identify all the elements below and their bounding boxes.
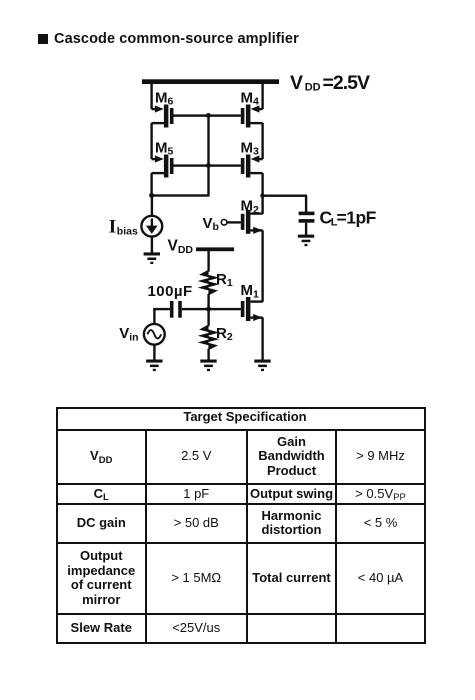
svg-text:VDD: VDD (168, 238, 194, 257)
wire M4 drain to M3 source (261, 123, 263, 159)
wire M6 drain to M5 source (150, 123, 152, 159)
svg-text:V: V (290, 72, 303, 94)
svg-text:=2.5V: =2.5V (323, 72, 370, 94)
source Vin (144, 324, 165, 345)
svg-text:=1pF: =1pF (337, 208, 377, 228)
capacitor 100uF (170, 301, 182, 318)
wire VDD rail to M4 source (261, 81, 263, 109)
wire M6 gate to M4 gate (174, 114, 241, 116)
wire R1 to input node (207, 294, 209, 310)
ground below CL (298, 235, 314, 247)
junction dot gates bottom pair (206, 163, 211, 168)
specification table (56, 407, 426, 644)
terminal Vb (221, 220, 227, 226)
ground below Vin (146, 360, 162, 372)
junction dot output node (260, 193, 264, 197)
wire M2 source to M1 drain (261, 230, 263, 301)
capacitor CL (299, 212, 315, 235)
transistor M5 (PMOS) (152, 155, 174, 178)
title bullet square (38, 34, 48, 44)
svg-text:DD: DD (305, 82, 321, 94)
svg-text:R2: R2 (216, 325, 233, 343)
wire output node to CL (263, 195, 308, 197)
wire Ibias to ground (151, 237, 153, 254)
VDD supply rail (142, 79, 279, 84)
svg-text:bias: bias (117, 226, 138, 238)
svg-text:M4: M4 (241, 89, 260, 107)
junction dot gates top pair (206, 113, 211, 118)
wire R2 to ground (207, 349, 209, 360)
svg-text:I: I (109, 217, 116, 238)
svg-text:M5: M5 (155, 139, 174, 157)
wire mirror gate column (207, 116, 209, 196)
junction dot input node (206, 307, 211, 312)
svg-text:M3: M3 (241, 139, 260, 157)
wire input node to M1 gate (182, 308, 241, 310)
wire input node to R2 (207, 309, 209, 326)
title text (54, 31, 299, 47)
svg-text:100µF: 100µF (148, 283, 193, 300)
transistor M2 (NMOS) (241, 210, 263, 234)
junction dot bias node (149, 193, 154, 198)
transistor M6 (PMOS) (152, 105, 174, 128)
svg-text:R1: R1 (216, 271, 233, 289)
transistor M3 (PMOS) (241, 155, 263, 178)
wire bias node to Ibias source (151, 195, 153, 216)
wire VDD rail to M6 source (150, 81, 152, 109)
svg-text:M6: M6 (155, 89, 174, 107)
svg-text:Vb: Vb (203, 215, 219, 233)
svg-text:M2: M2 (241, 198, 260, 216)
VDD bias rail bar (196, 247, 234, 251)
ground below R2 (200, 360, 216, 372)
resistor R1 (202, 271, 214, 294)
transistor M4 (PMOS) (241, 105, 263, 128)
ground below Ibias (144, 252, 160, 264)
wire M3 drain to output node and M2 drain (261, 173, 263, 214)
current source Ibias (141, 216, 162, 237)
wire VDD bar to R1 (207, 251, 209, 272)
wire M5 drain down to bias node (150, 173, 152, 197)
wire Vb to M2 gate (227, 221, 241, 223)
resistor R2 (202, 326, 214, 349)
svg-text:Vin: Vin (119, 325, 138, 344)
transistor M1 (NMOS) (241, 297, 263, 321)
wire M1 source to ground (261, 318, 263, 360)
wire M5 gate to M3 gate (174, 164, 241, 166)
wire Vin to ground (153, 345, 155, 360)
ground below M1 (254, 360, 270, 372)
wire bias node to gate column (152, 194, 210, 196)
wire Vin to capacitor (153, 308, 170, 310)
svg-text:M1: M1 (241, 282, 260, 300)
